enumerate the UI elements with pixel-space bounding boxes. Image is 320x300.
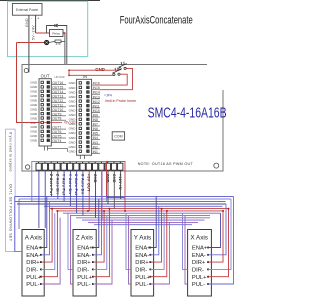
resistor R1 470 (55, 40, 61, 43)
svg-text:Z Axis: Z Axis (76, 234, 93, 241)
wire Y Axis PUL+ lead (150, 211, 167, 277)
svg-text:ENA+: ENA+ (192, 246, 208, 252)
wire bus b3 (15, 201, 226, 203)
wire A Axis ENA- lead (41, 202, 50, 255)
svg-text:OUT7: OUT7 (52, 126, 61, 130)
svg-text:IN6: IN6 (93, 127, 98, 131)
terminal 11 of TB1 (100, 161, 102, 163)
svg-text:ENA+: ENA+ (135, 246, 151, 252)
svg-text:UP101#: UP101# (55, 75, 66, 79)
svg-text:+5V: +5V (30, 121, 37, 125)
svg-text:GND: GND (69, 109, 77, 113)
svg-text:IN10: IN10 (93, 109, 100, 113)
wire drop from terminal 8 (82, 170, 84, 215)
mounting hole bottom-left (25, 165, 29, 169)
svg-text:GND: GND (30, 99, 38, 103)
svg-text:PUL-: PUL- (26, 282, 39, 288)
mounting hole bottom-right (214, 163, 219, 168)
driver Y Axis (131, 230, 154, 297)
svg-text:ENA+: ENA+ (26, 246, 42, 252)
wire X Axis ENA+ lead (208, 213, 220, 247)
wire switch S1 to IN15 (100, 68, 133, 89)
junction relay output (64, 32, 66, 34)
svg-text:GND: GND (30, 94, 38, 98)
junction bus red (124, 210, 126, 212)
relay K1 (50, 30, 64, 37)
svg-text:GND: GND (69, 113, 77, 117)
svg-text:Y Axis Dir: Y Axis Dir (68, 174, 72, 195)
svg-text:GND: GND (69, 145, 77, 149)
LED LED1 power indicator (44, 40, 48, 44)
svg-text:GND: GND (69, 131, 77, 135)
svg-text:DIR-: DIR- (26, 268, 38, 274)
wire GND from External Power (28, 15, 30, 72)
svg-text:IN3: IN3 (93, 141, 98, 145)
wire Z Axis ENA+ lead (93, 199, 99, 248)
svg-text:OUT13: OUT13 (52, 95, 63, 99)
svg-text:ENA-: ENA- (192, 253, 206, 259)
pin row 10 of J2 (79, 123, 81, 125)
wire switch S2 to IN16 (100, 74, 127, 85)
wire +5V row crossing (39, 122, 62, 124)
wire Y Axis DIR- left entry (126, 213, 131, 269)
switch S2 probe (113, 73, 115, 75)
wire bus b5 (44, 205, 223, 207)
svg-text:GND: GND (30, 90, 38, 94)
terminal 5 of TB1 (63, 161, 65, 163)
wire drop from terminal 12 (107, 170, 109, 204)
wire Z Axis PUL+ lead (93, 209, 110, 277)
wire top border segment (0, 0, 100, 2)
wire +5V riser on left (17, 43, 40, 123)
terminal 4 of TB1 (57, 161, 59, 163)
svg-text:PUL+: PUL+ (77, 275, 92, 281)
wire bus b9 (70, 215, 210, 217)
svg-text:Z Axis Dir: Z Axis Dir (55, 174, 59, 195)
wire bus b10 (76, 217, 210, 219)
svg-text:Y Axis: Y Axis (134, 234, 151, 241)
svg-text:DIR+: DIR+ (192, 260, 206, 266)
svg-text:GND: GND (69, 150, 77, 154)
pin row 2 of J1 (41, 86, 43, 88)
svg-text:ENA-: ENA- (26, 253, 40, 259)
wire bus b1 (15, 196, 234, 198)
wire bus b7 (57, 210, 223, 212)
pin row 8 of J1 (41, 112, 43, 114)
wire drop from terminal 10 (95, 170, 97, 218)
pin row 4 of J2 (79, 95, 81, 97)
wire A Axis PUL- lead (41, 218, 60, 284)
svg-text:GND: GND (30, 134, 38, 138)
svg-text:GND: GND (30, 81, 38, 85)
wire stub below IN header (79, 155, 81, 159)
svg-text:OUT6: OUT6 (52, 130, 61, 134)
wire bus b12 (88, 221, 198, 223)
svg-text:GND: GND (69, 127, 77, 131)
svg-text:PUL-: PUL- (77, 282, 90, 288)
annotation box power group (107, 162, 126, 198)
svg-text:GND: GND (69, 81, 77, 85)
pin row 9 of J2 (79, 118, 81, 120)
svg-text:DIR+: DIR+ (77, 260, 91, 266)
svg-text:OUT11: OUT11 (52, 103, 63, 107)
wire drop from terminal 2 (44, 170, 46, 228)
wire bus b6 (50, 208, 229, 210)
svg-text:PUL-: PUL- (135, 282, 148, 288)
svg-text:OUT10: OUT10 (52, 108, 63, 112)
pin row 1 of J2 (79, 82, 81, 84)
svg-text:GND: GND (69, 140, 77, 144)
wire stub below IN header 2 (84, 155, 86, 159)
wire Z Axis PUL- left entry (71, 216, 74, 285)
pin row 8 of J2 (79, 114, 81, 116)
wire drop from terminal 1 (38, 170, 40, 228)
wire X Axis ENA- lead (208, 204, 226, 255)
wire Y Axis DIR+ lead (150, 209, 161, 263)
svg-text:SMC4-4-16A16B: SMC4-4-16A16B (148, 106, 227, 122)
connector COM (112, 132, 124, 140)
pin row 7 of J2 (79, 109, 81, 111)
wire resistor to ground return (61, 40, 65, 42)
wire LED to resistor (49, 41, 55, 42)
pin row 11 of J1 (41, 126, 43, 128)
junction GND bus lower (68, 75, 70, 77)
pin row 5 of J1 (41, 99, 43, 101)
wire Z Axis PUL- lead (93, 220, 112, 284)
wire Z Axis ENA- lead (93, 204, 102, 255)
wire GND bus branch (68, 70, 70, 75)
junction bus red (57, 210, 59, 212)
connector J2 IN header (77, 79, 92, 155)
wire drop from terminal 9 (88, 170, 90, 211)
svg-text:limit in Probe home: limit in Probe home (105, 99, 136, 103)
svg-text:OUT15: OUT15 (52, 86, 63, 90)
node expansion-area cyan boundary (8, 1, 88, 56)
wire Y Axis PUL- lead (150, 222, 169, 284)
svg-text:Relay: Relay (52, 31, 60, 35)
junction bus red (161, 208, 163, 210)
wire drop from terminal 13 (113, 170, 115, 208)
wire relay output to board (63, 33, 65, 65)
svg-text:NOTE: OUT16 AS PWM OUT: NOTE: OUT16 AS PWM OUT (138, 162, 194, 166)
annotation box signal group (32, 162, 107, 202)
svg-text:=JP4: =JP4 (104, 94, 112, 98)
svg-text:OUT: OUT (41, 74, 50, 79)
wire A Axis PUL+ lead (41, 211, 58, 277)
svg-text:GND: GND (30, 139, 38, 143)
wire drop from terminal 4 (57, 170, 59, 199)
pin row 14 of J2 (79, 141, 81, 143)
wire left bus riser 2 (18, 199, 20, 229)
svg-text:IN13: IN13 (93, 95, 100, 99)
wire GND bus to switches (69, 69, 118, 71)
svg-text:GND: GND (30, 103, 38, 107)
pin row 12 of J2 (79, 132, 81, 134)
junction GND bus upper (68, 70, 70, 72)
svg-text:GND: GND (30, 130, 38, 134)
wire A Axis ENA+ lead (41, 197, 47, 248)
wire X Axis PUL- lead (208, 197, 233, 285)
svg-text:GND: GND (69, 86, 77, 90)
wire drop from terminal 7 (76, 170, 78, 213)
svg-text:IN5: IN5 (93, 132, 98, 136)
svg-text:GND: GND (30, 112, 38, 116)
svg-text:IN2: IN2 (93, 145, 98, 149)
wire Y Axis DIR- lead (150, 213, 164, 269)
svg-text:OUT14: OUT14 (52, 90, 63, 94)
junction bus red (87, 210, 89, 212)
svg-text:If you need to expand: If you need to expand (9, 132, 13, 172)
svg-text:GND: GND (69, 122, 77, 126)
svg-text:DIR+: DIR+ (135, 260, 149, 266)
wire Y Axis PUL- left entry (129, 216, 132, 285)
terminal 9 of TB1 (88, 161, 90, 163)
svg-text:External Power: External Power (16, 8, 39, 12)
pin row 13 of J2 (79, 136, 81, 138)
svg-text:GND: GND (95, 67, 105, 72)
pin row 10 of J1 (41, 121, 43, 123)
pin row 3 of J2 (79, 91, 81, 93)
wire drop from terminal 3 (51, 170, 53, 196)
pin row 16 of J2 (79, 150, 81, 152)
pin row 7 of J1 (41, 108, 43, 110)
junction bus red (109, 208, 111, 210)
diode D1 flyback (54, 24, 57, 27)
svg-text:IN12: IN12 (93, 100, 100, 104)
terminal 13 of TB1 (113, 161, 115, 163)
pin row 1 of J1 (41, 81, 43, 83)
svg-text:IN15: IN15 (93, 86, 100, 90)
svg-text:PUL+: PUL+ (192, 275, 207, 281)
svg-text:DIR-: DIR- (192, 268, 204, 274)
wire bus b11 (82, 219, 205, 221)
pin row 12 of J1 (41, 130, 43, 132)
pin row 14 of J1 (41, 139, 43, 141)
svg-text:IN9: IN9 (93, 114, 98, 118)
wire +12V feed down (124, 198, 126, 211)
driver A Axis (22, 230, 44, 297)
wire drop from terminal 6 (69, 170, 71, 206)
terminal 1 of TB1 (38, 161, 40, 163)
svg-text:5V~24V: 5V~24V (32, 25, 36, 40)
wire +V from External Power (35, 15, 37, 33)
wire Z Axis DIR- left entry (68, 213, 73, 269)
svg-text:GND: GND (30, 85, 38, 89)
svg-text:GND: GND (69, 90, 77, 94)
wire Y Axis ENA+ lead (150, 197, 156, 248)
svg-text:470: 470 (56, 42, 61, 46)
svg-text:GND: GND (25, 18, 29, 27)
wire below OUT header joining (48, 149, 68, 153)
wire A Axis DIR+ lead (41, 209, 52, 263)
wire branch to switch S2 (69, 74, 113, 76)
svg-text:OUT5: OUT5 (52, 135, 61, 139)
svg-text:OUT16: OUT16 (52, 81, 63, 85)
svg-text:X Axis: X Axis (190, 234, 208, 241)
wire +V to relay coil (36, 32, 50, 34)
svg-text:FourAxisConcatenate: FourAxisConcatenate (120, 15, 193, 27)
wire Z Axis DIR- lead (93, 216, 107, 270)
junction bus red (51, 208, 53, 210)
wire stub below OUT header 2 (47, 146, 49, 151)
pin row 2 of J2 (79, 86, 81, 88)
wire drop from terminal 14 (120, 170, 122, 199)
pin row 11 of J2 (79, 127, 81, 129)
controller board SMC4-4-16A16B outline (22, 65, 223, 172)
svg-text:GND: GND (69, 99, 77, 103)
wire bus b13 (94, 224, 192, 226)
pin row 13 of J1 (41, 135, 43, 137)
wire drop from terminal 11 (101, 170, 103, 220)
svg-text:IN11: IN11 (93, 104, 100, 108)
wire A Axis DIR- lead (41, 213, 55, 269)
svg-text:GND: GND (93, 174, 97, 183)
svg-text:IN7: IN7 (93, 123, 98, 127)
terminal 2 of TB1 (44, 161, 46, 163)
terminal 12 of TB1 (107, 161, 109, 163)
svg-text:GND: GND (69, 95, 77, 99)
svg-text:PUL+: PUL+ (26, 275, 41, 281)
wire X Axis DIR- lead (208, 199, 231, 269)
terminal 14 of TB1 (119, 161, 121, 163)
svg-text:DIR+: DIR+ (26, 260, 40, 266)
svg-text:OUT4: OUT4 (52, 139, 61, 143)
pin row 5 of J2 (79, 100, 81, 102)
power supply PS1 External Power (12, 4, 42, 16)
connector J1 OUT header (39, 79, 51, 146)
svg-text:GND: GND (30, 107, 38, 111)
pin row 6 of J1 (41, 104, 43, 106)
driver Z Axis (73, 230, 96, 297)
wire X Axis PUL- left entry (185, 216, 188, 285)
terminal 6 of TB1 (69, 161, 71, 163)
svg-text:IN1: IN1 (93, 150, 98, 154)
wire X Axis DIR+ lead (208, 211, 223, 262)
svg-text:OUT12: OUT12 (52, 99, 63, 103)
wire +5V from OUT header to LED (17, 42, 45, 44)
svg-text:GND: GND (30, 125, 38, 129)
svg-text:+5V OUT: +5V OUT (87, 174, 91, 192)
svg-text:DIR-: DIR- (135, 268, 147, 274)
terminal 10 of TB1 (94, 161, 96, 163)
svg-text:DIR-: DIR- (77, 268, 89, 274)
terminal 3 of TB1 (50, 161, 52, 163)
svg-text:PUL+: PUL+ (135, 275, 150, 281)
svg-text:GND: GND (69, 104, 77, 108)
driver X Axis (188, 230, 212, 297)
pin row 6 of J2 (79, 105, 81, 107)
terminal 7 of TB1 (75, 161, 77, 163)
svg-text:GND: GND (69, 118, 77, 122)
wire X Axis DIR- left entry (183, 213, 188, 269)
pin row 3 of J1 (41, 90, 43, 92)
pin row 4 of J1 (41, 95, 43, 97)
svg-text:OUT8: OUT8 (52, 117, 61, 121)
mounting hole top-left (24, 69, 28, 73)
svg-text:IN4: IN4 (93, 136, 98, 140)
junction bus red (103, 210, 105, 212)
wire Y Axis ENA- lead (150, 206, 159, 255)
svg-text:ENA+: ENA+ (77, 246, 93, 252)
svg-text:GND: GND (30, 116, 38, 120)
junction bus red (228, 208, 230, 210)
pin row 9 of J1 (41, 117, 43, 119)
wire bus b8 (63, 212, 221, 214)
svg-text:Y Axis Pul: Y Axis Pul (62, 174, 66, 195)
wire drop from terminal 5 (63, 170, 65, 201)
svg-text:+12V IN: +12V IN (118, 174, 122, 190)
svg-text:PUL-: PUL- (192, 282, 205, 288)
wire X Axis PUL+ lead (208, 209, 228, 277)
wire diode loop right (58, 26, 67, 65)
annotation box expansion note (6, 129, 16, 251)
svg-text:OUT9: OUT9 (52, 112, 61, 116)
wire bus b4 (17, 203, 226, 205)
terminal 8 of TB1 (82, 161, 84, 163)
pin row 15 of J2 (79, 145, 81, 147)
svg-text:IN14: IN14 (93, 91, 100, 95)
wire bus b2 (19, 198, 231, 200)
wire left bus riser (15, 197, 23, 252)
wire diode loop left (47, 26, 55, 34)
svg-text:A Axis: A Axis (25, 234, 42, 241)
svg-text:OUT1 SET FOLLOWING SET: OUT1 SET FOLLOWING SET (9, 184, 13, 241)
wire stub below OUT header (44, 146, 46, 151)
svg-text:ENA-: ENA- (135, 253, 149, 259)
switch S1 limit (119, 68, 121, 70)
junction bus red (166, 210, 168, 212)
wire Z Axis DIR+ lead (93, 211, 104, 262)
svg-text:COM: COM (114, 135, 122, 139)
svg-text:IN8: IN8 (93, 118, 98, 122)
svg-text:ENA-: ENA- (77, 253, 91, 259)
junction bus red (222, 210, 224, 212)
svg-text:GND: GND (69, 136, 77, 140)
svg-text:IN16: IN16 (93, 82, 100, 86)
